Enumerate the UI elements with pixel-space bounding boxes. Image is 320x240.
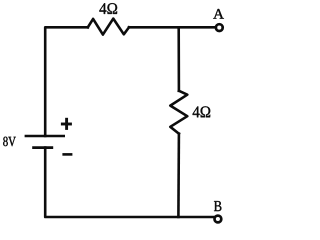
battery minus sign xyxy=(62,153,72,156)
resistor R2 zigzag (right branch, vertical) xyxy=(170,91,187,134)
wire right-branch upper stub: top wire to resistor R2 xyxy=(177,27,180,91)
node junction at top of right branch xyxy=(177,26,180,29)
resistor R1 zigzag (top, horizontal) xyxy=(88,19,129,35)
battery value label 8V xyxy=(3,137,16,147)
resistor R2 value label 4&#937; xyxy=(193,106,211,117)
terminal A open circle xyxy=(216,24,223,31)
terminal B open circle xyxy=(215,216,222,223)
resistor R1 value label 4&#937; xyxy=(99,3,117,14)
battery plus sign xyxy=(61,118,72,130)
wire right-branch lower stub: R2 to bottom wire xyxy=(177,134,180,217)
wire bottom: battery negative to terminal B xyxy=(45,148,213,217)
battery V1 top plate (long, positive) xyxy=(25,135,65,138)
wire top-right: R1 to terminal A xyxy=(129,26,215,29)
terminal A label xyxy=(213,9,224,19)
battery V1 bottom plate (short, negative) xyxy=(32,146,53,149)
wire top-left: battery positive to resistor R1 xyxy=(45,27,88,136)
terminal B label xyxy=(214,201,221,211)
